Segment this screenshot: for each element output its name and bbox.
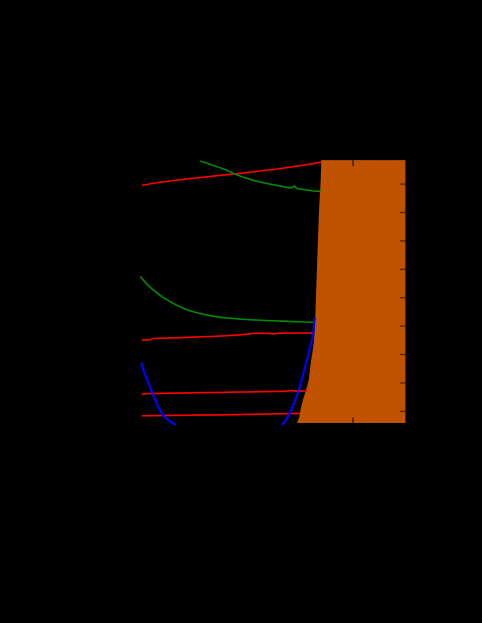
red curve 3 (near-horizontal, y~391-394) (142, 391, 308, 395)
right axis tick 2 (400, 212, 405, 213)
orange shaded region (297, 160, 405, 423)
green curve 2 (middle, exponential decay shape) (140, 276, 313, 322)
right axis tick 3 (400, 240, 405, 241)
right axis tick 1 (400, 184, 405, 185)
right axis tick 4 (400, 269, 405, 270)
bottom axis major tick at x=353 (over orange) (352, 418, 354, 423)
right axis tick 7 (400, 354, 405, 355)
top axis major tick at x=353 (over orange) (352, 160, 354, 166)
blue curve left branch (descending into bottom axis) (141, 363, 176, 425)
right axis tick 6 (400, 326, 405, 327)
right axis tick 5 (400, 297, 405, 298)
red curve 2 (near-horizontal, y~332-340) (142, 333, 314, 340)
blue curve right branch (rising steeply along orange edge) (282, 318, 315, 425)
green curve 1 (upper, descending to the right) (200, 161, 321, 192)
red curve 4 (near-horizontal, y~413-416) (142, 413, 300, 415)
right axis tick 9 (400, 411, 405, 412)
red curve 1 (upper, rising to the right) (142, 162, 321, 185)
right axis tick 8 (400, 382, 405, 383)
